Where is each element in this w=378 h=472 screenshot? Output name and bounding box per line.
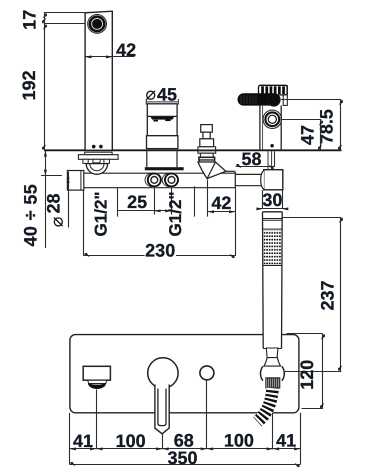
svg-text:230: 230: [145, 241, 175, 261]
shower elbow block: [261, 170, 283, 190]
dimension 78.5: [281, 99, 341, 150]
svg-text:350: 350: [167, 448, 197, 468]
holder clamp ring: [268, 94, 280, 106]
tube left collar: [67, 171, 83, 191]
svg-text:G1/2": G1/2": [166, 192, 185, 237]
extension lines below tube: [118, 180, 236, 256]
spout (side view): [85, 11, 112, 149]
dimension phi28: [44, 172, 70, 228]
extension lines bottom dims: [70, 380, 301, 465]
inlet unions G1/2: [145, 172, 179, 187]
dimension 350: [70, 448, 301, 468]
svg-text:40 ÷ 55: 40 ÷ 55: [21, 184, 41, 247]
deck line: [44, 149, 342, 151]
dimension 192: [19, 24, 45, 150]
dimension 17: [20, 10, 85, 30]
dimension 30: [256, 190, 288, 210]
svg-text:192: 192: [19, 70, 39, 100]
dimension phi45: [146, 84, 178, 104]
svg-text:100: 100: [116, 431, 146, 451]
svg-text:28: 28: [44, 193, 64, 213]
mixer handle front view: [148, 358, 178, 434]
svg-text:42: 42: [116, 40, 136, 60]
hand shower head edge (knurled block): [259, 85, 288, 95]
hand shower handle in holder (black pill): [238, 93, 281, 105]
svg-text:17: 17: [20, 10, 40, 30]
mixer cartridge (side view): [147, 104, 178, 149]
diverter below deck: [198, 151, 235, 179]
svg-text:78.5: 78.5: [316, 109, 336, 144]
svg-text:41: 41: [276, 430, 296, 450]
dimension 25: [118, 192, 172, 213]
thin tube to shower elbow: [235, 172, 264, 188]
spout front view: [83, 366, 110, 389]
G1/2 label left: [92, 192, 111, 237]
holder bracket: [283, 86, 287, 106]
bath rim front panel (bottom view): [70, 335, 299, 413]
shower cup: [264, 358, 281, 367]
svg-text:100: 100: [224, 430, 254, 450]
shower neck: [266, 348, 278, 358]
spout shank dome end: [86, 164, 107, 175]
svg-text:237: 237: [318, 280, 338, 310]
dimension 42 lower: [208, 193, 236, 213]
svg-text:58: 58: [241, 149, 261, 169]
dimension 237: [283, 217, 342, 371]
under-deck body tube: [67, 173, 235, 188]
dimension 47: [282, 120, 322, 151]
cartridge shank below deck: [145, 151, 184, 170]
aerator: [88, 15, 107, 34]
spout shank flange: [78, 152, 118, 163]
dimension 120: [287, 334, 323, 409]
dimension 230: [84, 190, 236, 260]
G1/2 label right: [166, 192, 185, 237]
diverter knob (above deck): [198, 125, 216, 150]
svg-text:42: 42: [211, 193, 231, 213]
spout screws dots: [92, 145, 103, 149]
dimension 42 top: [85, 40, 136, 60]
svg-text:41: 41: [73, 431, 93, 451]
dimension 40/55: [21, 150, 62, 248]
shower hose: [258, 388, 273, 422]
svg-text:120: 120: [297, 360, 317, 390]
holder shank below deck: [268, 151, 272, 169]
dimension row 41 100 68 100 41: [70, 430, 301, 450]
dimension 58: [236, 149, 275, 169]
hand shower holder column (above deck): [260, 105, 281, 149]
svg-text:30: 30: [262, 190, 282, 210]
holder pivot ring: [263, 110, 281, 128]
hand shower hanging (front view): [263, 212, 283, 349]
svg-text:25: 25: [127, 192, 147, 212]
hose nut: [266, 378, 280, 388]
diverter knob front view: [200, 366, 214, 380]
svg-text:G1/2": G1/2": [92, 192, 111, 237]
holder set screw dot: [270, 144, 273, 147]
holder ring front view: [260, 366, 284, 380]
svg-text:47: 47: [297, 125, 317, 145]
